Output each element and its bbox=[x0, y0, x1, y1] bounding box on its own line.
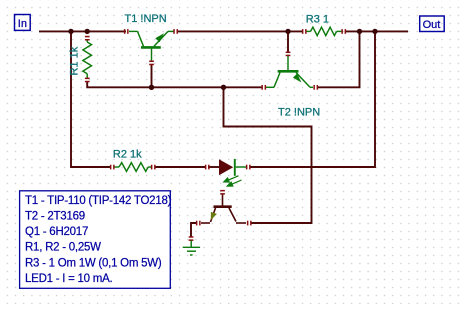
pin R3 left bbox=[302, 29, 307, 34]
svg-text:R3 - 1 Om 1W (0,1 Om 5W): R3 - 1 Om 1W (0,1 Om 5W) bbox=[25, 257, 162, 269]
pin T2 emitter bbox=[313, 85, 318, 90]
pin T1 emitter bbox=[173, 29, 178, 34]
svg-text:T1 - TIP-110 (TIP-142 TO218): T1 - TIP-110 (TIP-142 TO218) bbox=[25, 195, 172, 207]
parts list text bbox=[25, 195, 172, 285]
svg-text:LED1 - I = 10 mA.: LED1 - I = 10 mA. bbox=[25, 273, 113, 285]
wire: T2 base up to top rail bbox=[287, 31, 289, 53]
wire: left vertical branch x=71 down to R2 rail bbox=[71, 31, 111, 167]
pin T1 collector bbox=[124, 29, 129, 34]
wire: right vertical drop x=375 to LED rail bbox=[250, 31, 375, 167]
pin LED1 cathode bbox=[246, 165, 251, 170]
wire: T1 base down to middle rail bbox=[151, 64, 153, 87]
pin T1 base bbox=[149, 61, 154, 66]
junction node: top rail / R1 bbox=[85, 29, 90, 34]
transistor T1 (NPN, base bar bottom) bbox=[129, 31, 174, 62]
pin Q1 collector bbox=[247, 221, 252, 226]
pin R1 top bbox=[85, 36, 90, 41]
ground symbol bbox=[183, 241, 200, 256]
wire: middle rail y=87.3 to T2 collector bbox=[152, 86, 263, 88]
svg-text:T2 !NPN: T2 !NPN bbox=[278, 107, 320, 119]
svg-text:Q1 - 6H2017: Q1 - 6H2017 bbox=[25, 226, 88, 238]
junction node: top rail / left branch bbox=[68, 29, 73, 34]
pin T2 collector bbox=[261, 85, 266, 90]
pin R1 bottom bbox=[85, 78, 90, 83]
resistor R1 (vertical) bbox=[83, 39, 92, 78]
pin R2 left bbox=[110, 165, 115, 170]
port In bbox=[15, 15, 31, 31]
svg-text:R3 1: R3 1 bbox=[306, 14, 329, 26]
LED1 emission arrows bbox=[224, 176, 242, 186]
parts list box bbox=[20, 191, 171, 288]
junction node: top rail / T2 emitter riser bbox=[357, 29, 362, 34]
wire: R2 rail between R2 and LED1 bbox=[155, 166, 205, 168]
junction node: middle rail / T1 base bbox=[149, 85, 154, 90]
LED LED1 bbox=[208, 159, 246, 176]
svg-text:R1 1k: R1 1k bbox=[68, 46, 80, 75]
junction node: top rail / T2 base bbox=[285, 29, 290, 34]
resistor R2 (horizontal) bbox=[114, 163, 151, 172]
transistor T2 (NPN, base bar top, mirrored) bbox=[266, 55, 313, 87]
junction node: top rail / right drop bbox=[372, 29, 377, 34]
wire: R1 bottom L to middle rail bbox=[87, 82, 151, 88]
transistor Q1 (phototransistor, maroon) bbox=[201, 194, 246, 224]
svg-text:T2 - 2T3169: T2 - 2T3169 bbox=[25, 210, 85, 222]
pin R2 right bbox=[151, 165, 156, 170]
port Out bbox=[420, 16, 445, 32]
pin LED1 anode bbox=[205, 165, 210, 170]
svg-text:T1 !NPN: T1 !NPN bbox=[125, 13, 167, 25]
pin ground connection bbox=[189, 236, 194, 241]
svg-text:Out: Out bbox=[423, 19, 441, 31]
svg-text:In: In bbox=[18, 18, 27, 30]
wire: Q1 emitter to ground bbox=[191, 223, 196, 237]
wire: T2 emitter to vertical riser x=359.5 bbox=[317, 31, 360, 87]
resistor R3 (horizontal, top rail) bbox=[306, 27, 343, 35]
pin Q1 emitter bbox=[196, 221, 201, 226]
wire: middle rail drop at x=223.5 over to x=311.5 down to Q1 collector bbox=[224, 87, 312, 223]
svg-text:R2 1k: R2 1k bbox=[113, 149, 142, 161]
svg-text:R1, R2 - 0,25W: R1, R2 - 0,25W bbox=[25, 242, 101, 254]
pin R3 right bbox=[341, 29, 346, 34]
wire: top rail from In to Out, y=31.4 bbox=[39, 30, 408, 32]
pin T2 base bbox=[286, 52, 291, 57]
pin Q1 base bbox=[220, 190, 225, 195]
junction node: middle rail / LED network drop bbox=[221, 85, 226, 90]
